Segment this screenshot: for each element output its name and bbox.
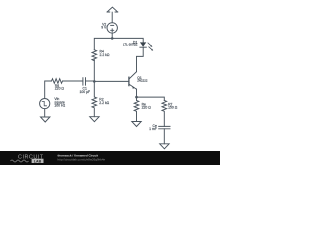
logo LAB xyxy=(11,160,29,162)
svg-text:100 µF: 100 µF xyxy=(80,90,91,94)
svg-text:150 Ω: 150 Ω xyxy=(168,105,178,109)
LED D1 xyxy=(140,42,153,50)
ground under Re xyxy=(132,122,141,127)
source Vin xyxy=(40,99,50,109)
wire V2 bottom xyxy=(111,33,113,38)
wire emitter node to R7 xyxy=(137,97,165,100)
wire emitter down xyxy=(136,89,138,97)
voltage source V2 xyxy=(107,23,117,33)
svg-text:http://circuitlab.com/c/e8w26g: http://circuitlab.com/c/e8w26g9hk4e xyxy=(58,158,106,162)
svg-text:1 mF: 1 mF xyxy=(149,127,157,131)
ground under Vin xyxy=(41,117,50,122)
resistor R2 xyxy=(92,81,97,116)
wire LED to collector jog xyxy=(137,47,144,71)
ground under Ce xyxy=(160,144,169,149)
resistor R7 xyxy=(162,101,167,127)
wire V2 top stem xyxy=(111,12,113,23)
wire Ce to ground xyxy=(163,129,165,144)
wire Vin top xyxy=(45,81,52,99)
svg-text:9 V: 9 V xyxy=(101,26,107,30)
capacitor Ce xyxy=(159,126,170,128)
resistor R6 xyxy=(52,79,63,84)
wire Vin bottom xyxy=(44,109,46,117)
transistor Q1 xyxy=(129,72,137,90)
node V2 rail junction xyxy=(111,37,114,40)
svg-text:LAB: LAB xyxy=(34,159,42,163)
VCC power symbol xyxy=(107,7,118,12)
resistor Re xyxy=(134,97,139,121)
svg-text:2.2 kΩ: 2.2 kΩ xyxy=(99,101,109,105)
node base junction xyxy=(93,80,96,83)
svg-text:LTL-307EE: LTL-307EE xyxy=(123,43,137,47)
labels xyxy=(54,22,177,131)
svg-text:2N2222: 2N2222 xyxy=(137,78,148,82)
svg-text:100 Hz: 100 Hz xyxy=(54,104,65,108)
wire R4 to node xyxy=(93,60,95,82)
wire R6 to C1 xyxy=(63,80,83,82)
wire top rail xyxy=(94,38,143,49)
footer bar xyxy=(0,151,220,165)
resistor R4 xyxy=(92,50,97,61)
svg-text:220 Ω: 220 Ω xyxy=(55,87,65,91)
wire C1 to node xyxy=(86,80,95,82)
svg-text:2.2 kΩ: 2.2 kΩ xyxy=(100,53,110,57)
ground under R2 xyxy=(90,117,99,122)
wire base xyxy=(94,80,128,82)
node emitter junction xyxy=(135,96,138,99)
svg-text:220 Ω: 220 Ω xyxy=(142,105,152,109)
capacitor C1 xyxy=(83,78,86,86)
